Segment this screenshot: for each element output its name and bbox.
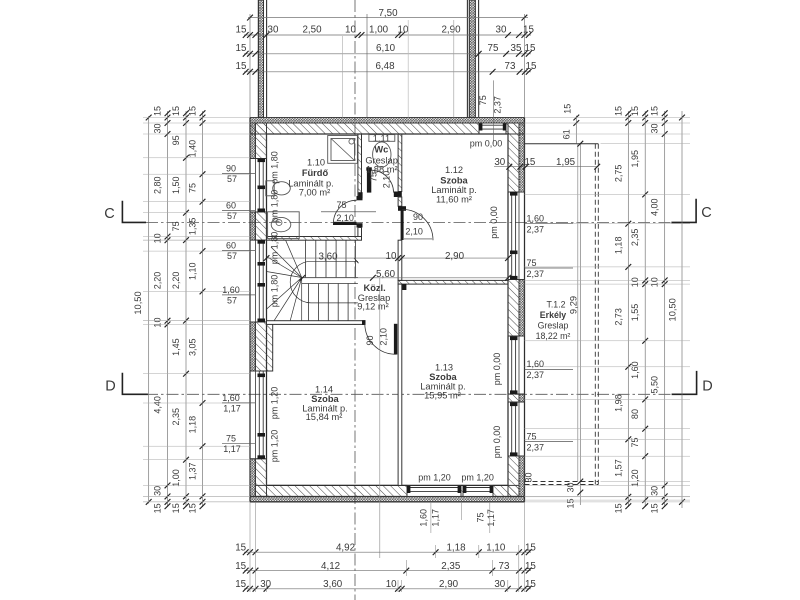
right wall inner face line: [507, 134, 509, 485]
svg-text:C: C: [701, 205, 711, 221]
svg-text:15: 15: [526, 61, 537, 72]
svg-text:90: 90: [365, 335, 375, 345]
svg-text:Szoba: Szoba: [440, 175, 468, 185]
svg-text:10: 10: [153, 233, 163, 243]
dim 30-15-1,95 below top right corner: [494, 166, 598, 168]
top wall hatched right pier: [506, 123, 525, 134]
svg-text:pm 1,80: pm 1,80: [270, 151, 280, 184]
left wall outer line: [249, 118, 251, 502]
bottom window leader lines: [430, 502, 432, 533]
svg-text:15: 15: [525, 579, 536, 590]
svg-text:9,12 m²: 9,12 m²: [357, 302, 389, 312]
left wall window caps: [258, 159, 266, 163]
svg-text:95: 95: [171, 135, 181, 145]
svg-text:75: 75: [630, 437, 640, 447]
top wall face lines: [267, 133, 509, 135]
right wall window labels: [525, 223, 574, 225]
misc vertical extension x493: [492, 80, 494, 143]
svg-text:7,50: 7,50: [378, 8, 398, 19]
svg-text:73: 73: [499, 561, 510, 572]
svg-text:pm 0,00: pm 0,00: [489, 206, 499, 239]
svg-text:3,60: 3,60: [323, 579, 343, 590]
svg-text:60: 60: [226, 241, 236, 251]
svg-text:15: 15: [236, 61, 247, 72]
svg-text:1,88 m²: 1,88 m²: [366, 165, 398, 175]
interior dim 3,60-10-2,90: [267, 257, 509, 259]
extension line left: [249, 14, 251, 118]
svg-text:10: 10: [398, 24, 409, 35]
svg-text:6,10: 6,10: [376, 43, 396, 54]
bottom window 1 frame: [407, 487, 461, 489]
svg-text:7,00 m²: 7,00 m²: [299, 187, 331, 197]
svg-text:pm 0,00: pm 0,00: [492, 426, 502, 459]
chimney pier by stair: [255, 322, 272, 371]
top insulation band: [250, 118, 525, 124]
svg-text:30: 30: [650, 486, 660, 496]
overall dim 7,50: [248, 17, 528, 19]
section marker D right: [672, 371, 697, 394]
door C threshold line: [404, 238, 432, 240]
svg-text:15: 15: [188, 106, 198, 116]
svg-text:10: 10: [386, 251, 397, 262]
svg-text:1,60: 1,60: [527, 214, 545, 224]
svg-text:1,18: 1,18: [613, 237, 623, 255]
svg-text:2,90: 2,90: [441, 24, 461, 35]
svg-text:Greslap: Greslap: [538, 320, 569, 330]
svg-text:15: 15: [563, 104, 573, 114]
bottom dimension chain y=570.6: [244, 570, 531, 572]
svg-text:D: D: [702, 379, 712, 395]
svg-text:Erkély: Erkély: [540, 310, 567, 320]
svg-text:1,17: 1,17: [486, 509, 496, 527]
balcony right edge dashed: [594, 144, 596, 485]
svg-text:15: 15: [525, 561, 536, 572]
wall W2 hall south: [267, 321, 366, 325]
left extension lines: [143, 117, 250, 119]
svg-text:15,95 m²: 15,95 m²: [424, 391, 461, 401]
section marker C right: [671, 199, 696, 223]
svg-text:15: 15: [171, 106, 181, 116]
svg-text:4,40: 4,40: [153, 396, 163, 414]
svg-text:90: 90: [413, 212, 423, 222]
right wall pier hatch: [508, 456, 519, 496]
right dimension chain x=664.7: [664, 111, 666, 507]
svg-text:2,50: 2,50: [302, 24, 322, 35]
svg-text:4,00: 4,00: [650, 198, 660, 216]
stair upper flight treads: [305, 240, 307, 277]
right wall pier hatch: [508, 394, 519, 402]
svg-text:35: 35: [511, 43, 522, 54]
svg-text:15,84 m²: 15,84 m²: [306, 412, 343, 422]
balcony dim 9,29: [579, 144, 581, 505]
svg-text:61: 61: [562, 129, 572, 139]
svg-text:1,00: 1,00: [369, 24, 389, 35]
svg-text:15: 15: [153, 106, 163, 116]
svg-text:30: 30: [153, 123, 163, 133]
wall W4 hatched mid: [398, 197, 402, 206]
svg-text:10: 10: [650, 277, 660, 287]
toilet fürdő: [266, 181, 274, 196]
wall W6 rooms 1.14|1.13: [398, 284, 402, 485]
svg-text:57: 57: [227, 174, 237, 184]
svg-text:30: 30: [268, 24, 279, 35]
svg-text:1,57: 1,57: [613, 459, 623, 477]
svg-text:30: 30: [494, 157, 505, 168]
svg-text:1,40: 1,40: [188, 140, 198, 158]
top chain 15-6,10-75-35-15: [244, 53, 531, 55]
top wall hatched left part: [250, 123, 479, 134]
svg-text:75: 75: [476, 512, 486, 522]
svg-text:1.10: 1.10: [307, 158, 325, 168]
extension line right: [523, 14, 525, 118]
wall W5 rooms 1.12|1.13 hatched: [398, 280, 508, 284]
svg-text:15: 15: [650, 106, 660, 116]
top chain 15-6,48-73-15: [244, 71, 531, 73]
misc faint vertical x408: [407, 20, 409, 118]
svg-text:1,18: 1,18: [188, 416, 198, 434]
left wall pier hatch: [255, 123, 266, 159]
right overall dim 10,50: [681, 111, 683, 508]
svg-text:75: 75: [226, 433, 236, 443]
door D room 1.14 leaf: [394, 324, 397, 355]
svg-text:pm 1,20: pm 1,20: [418, 473, 451, 483]
wall W1 fürdő south hatched: [267, 237, 362, 241]
svg-text:30: 30: [494, 579, 505, 590]
svg-text:4,12: 4,12: [321, 561, 340, 572]
svg-text:3,60: 3,60: [318, 251, 338, 262]
svg-text:15: 15: [171, 503, 181, 513]
svg-text:15: 15: [650, 503, 660, 513]
interior dim 5,60: [303, 277, 509, 279]
svg-text:1,60: 1,60: [527, 359, 545, 369]
stair landing double line: [302, 277, 358, 279]
svg-text:1,95: 1,95: [556, 157, 576, 168]
left wall pier hatch: [255, 459, 266, 497]
svg-text:2,10: 2,10: [405, 227, 423, 237]
stair lower flight treads: [308, 284, 310, 321]
svg-text:6,48: 6,48: [375, 61, 395, 72]
svg-text:15: 15: [524, 157, 535, 168]
svg-text:pm 1,20: pm 1,20: [270, 387, 280, 420]
svg-text:15: 15: [235, 561, 246, 572]
svg-text:2,37: 2,37: [527, 442, 545, 452]
svg-text:15: 15: [613, 503, 623, 513]
bottom insulation band: [250, 496, 525, 502]
right wall insulation line: [518, 123, 520, 496]
left wall window A frame: [258, 159, 260, 213]
top chain 15-30-2,50-10-1,00-10-2,90-30-15: [244, 34, 531, 36]
svg-text:30: 30: [566, 482, 576, 492]
svg-text:10: 10: [345, 24, 356, 35]
svg-text:75: 75: [336, 200, 346, 210]
bottom wall hatched right pier: [493, 485, 519, 496]
svg-text:15: 15: [525, 542, 536, 553]
svg-text:1,10: 1,10: [486, 542, 506, 553]
svg-text:10: 10: [386, 579, 397, 590]
svg-text:15: 15: [630, 106, 640, 116]
svg-text:15: 15: [236, 24, 247, 35]
misc faint vertical x342: [341, 36, 343, 118]
svg-text:1.14: 1.14: [315, 385, 333, 395]
bottom wall hatched left part: [255, 485, 407, 496]
svg-text:1,45: 1,45: [171, 338, 181, 356]
svg-text:2,20: 2,20: [153, 272, 163, 290]
wall W3 lower jamb cap: [357, 223, 363, 227]
bottom wall face lines: [267, 484, 509, 486]
wall W4 wc east hatched upper: [398, 134, 402, 192]
door A dim line: [321, 211, 376, 213]
svg-text:pm 1,80: pm 1,80: [270, 232, 280, 265]
bottom dimension chain y=552.2: [244, 551, 531, 553]
svg-text:2,90: 2,90: [439, 579, 459, 590]
svg-text:15: 15: [525, 43, 536, 54]
svg-text:1,17: 1,17: [223, 404, 241, 414]
svg-text:2,37: 2,37: [527, 269, 545, 279]
washbasin fürdő: [268, 212, 300, 239]
right wall outer line: [524, 118, 526, 502]
svg-text:57: 57: [227, 251, 237, 261]
section marker D left: [122, 373, 147, 395]
svg-text:pm 0,00: pm 0,00: [492, 353, 502, 386]
svg-text:2,10: 2,10: [336, 213, 354, 223]
wall W3 door jamb cap: [357, 196, 363, 200]
svg-text:2,75: 2,75: [613, 165, 623, 183]
right wall window caps: [510, 192, 518, 196]
wall W4 below door C: [398, 240, 402, 280]
balcony railing line: [577, 144, 579, 482]
svg-text:pm 1,20: pm 1,20: [270, 430, 280, 463]
stair centre line down: [301, 278, 303, 321]
svg-text:73: 73: [505, 61, 516, 72]
section marker C left: [122, 201, 146, 223]
svg-text:15: 15: [188, 503, 198, 513]
svg-text:15: 15: [523, 24, 534, 35]
vertical centre axis line: [354, 0, 356, 600]
door C swing arc: [402, 209, 433, 240]
svg-text:1,17: 1,17: [431, 509, 441, 527]
svg-text:2,35: 2,35: [630, 229, 640, 247]
svg-text:57: 57: [227, 211, 237, 221]
svg-text:1,35: 1,35: [188, 218, 198, 236]
upper-left wall stub: [258, 0, 263, 118]
svg-text:5,50: 5,50: [650, 376, 660, 394]
svg-text:30: 30: [496, 24, 507, 35]
svg-text:1,00: 1,00: [171, 469, 181, 487]
svg-text:Közl.: Közl.: [363, 283, 385, 293]
left wall window labels: [222, 172, 255, 174]
svg-text:D: D: [105, 379, 115, 395]
dim 15/61 at balcony top: [575, 116, 577, 144]
toilet wc: [369, 135, 395, 142]
door B swing arc: [371, 170, 393, 192]
left wall insulation line: [254, 123, 256, 496]
balcony top edge: [525, 143, 599, 145]
svg-text:1,37: 1,37: [188, 462, 198, 480]
door D swing arc: [365, 324, 396, 355]
svg-text:15: 15: [236, 43, 247, 54]
svg-text:1,17: 1,17: [223, 444, 241, 454]
svg-text:15: 15: [235, 542, 246, 553]
svg-text:2,73: 2,73: [613, 308, 623, 326]
svg-text:Fürdő: Fürdő: [302, 168, 329, 178]
left overall dim 10,50: [148, 116, 150, 504]
svg-text:C: C: [104, 206, 114, 222]
long extension x380: [379, 278, 381, 558]
svg-text:2,35: 2,35: [171, 408, 181, 426]
left dimension chain x=167.5: [167, 111, 169, 507]
bottom extension lines: [249, 502, 251, 592]
right dimension chain x=645.2: [644, 111, 646, 507]
svg-text:pm 1,20: pm 1,20: [461, 473, 494, 483]
balcony bottom edge dashed: [525, 481, 599, 483]
svg-text:2,37: 2,37: [527, 370, 545, 380]
svg-text:1,60: 1,60: [222, 285, 240, 295]
svg-text:75: 75: [478, 95, 488, 105]
svg-text:pm 1,80: pm 1,80: [270, 275, 280, 308]
right wall pier hatch: [508, 280, 519, 337]
svg-text:80: 80: [630, 409, 640, 419]
stair winder fan lines: [286, 240, 302, 277]
section line D-D: [146, 393, 696, 395]
svg-text:11,60 m²: 11,60 m²: [436, 195, 472, 205]
left dimension chain x=202.5: [202, 111, 204, 507]
wall W3 wc west hatched: [358, 134, 362, 196]
svg-text:1.12: 1.12: [445, 165, 463, 175]
svg-text:75: 75: [171, 221, 181, 231]
svg-text:2,90: 2,90: [445, 251, 465, 262]
left wall inner face line: [266, 134, 268, 485]
svg-text:1,95: 1,95: [630, 150, 640, 168]
svg-text:90: 90: [226, 163, 236, 173]
svg-text:75: 75: [527, 258, 537, 268]
svg-text:1.13: 1.13: [435, 363, 453, 373]
svg-text:Laminált p.: Laminált p.: [431, 185, 476, 195]
svg-text:10: 10: [630, 277, 640, 287]
top window 73 frame: [479, 124, 506, 126]
svg-text:pm 0,00: pm 0,00: [470, 138, 503, 148]
bottom wall mullion pier: [461, 485, 463, 496]
svg-text:1,18: 1,18: [446, 542, 466, 553]
bottom dimension chain y=588.8: [244, 588, 531, 590]
door B jamb cap: [358, 192, 362, 198]
svg-text:57: 57: [227, 296, 237, 306]
svg-text:1,20: 1,20: [630, 469, 640, 487]
svg-text:30: 30: [153, 486, 163, 496]
svg-text:5,60: 5,60: [376, 269, 396, 280]
svg-text:1.11: 1.11: [373, 133, 390, 143]
svg-text:1,50: 1,50: [171, 176, 181, 194]
door A swing arc: [333, 200, 356, 223]
wall W5 end cap: [399, 284, 407, 290]
svg-text:3,05: 3,05: [188, 338, 198, 356]
left wall pier hatch: [255, 212, 266, 240]
upper-right wall stub: [469, 0, 475, 118]
svg-text:T.1.2: T.1.2: [546, 300, 565, 310]
svg-text:30: 30: [260, 579, 271, 590]
svg-text:60: 60: [226, 201, 236, 211]
misc thin vertical x367: [366, 14, 368, 118]
wall W4 jamb cap: [394, 192, 402, 198]
svg-text:15: 15: [153, 503, 163, 513]
right wall window frames: [511, 192, 513, 280]
right dimension chain x=628.3: [627, 111, 629, 507]
bottom window 2 frame: [463, 487, 493, 489]
svg-text:pm 1,80: pm 1,80: [270, 190, 280, 223]
svg-text:1,60: 1,60: [630, 361, 640, 379]
svg-text:15: 15: [613, 106, 623, 116]
svg-text:75: 75: [488, 43, 499, 54]
door B wc leaf: [367, 169, 371, 193]
wall W4 door C jamb cap: [398, 206, 406, 211]
svg-text:2,20: 2,20: [171, 272, 181, 290]
svg-text:1,98: 1,98: [613, 394, 623, 412]
svg-text:1,10: 1,10: [188, 262, 198, 280]
right wall pier hatch: [508, 123, 519, 192]
svg-text:9,29: 9,29: [569, 296, 579, 314]
svg-text:4,92: 4,92: [336, 542, 355, 553]
left dimension chain x=186: [185, 111, 187, 507]
svg-text:2,35: 2,35: [441, 561, 461, 572]
svg-text:10: 10: [153, 318, 163, 328]
svg-text:1,60: 1,60: [222, 393, 240, 403]
svg-text:10,50: 10,50: [133, 291, 143, 314]
svg-text:1,60: 1,60: [419, 509, 429, 527]
door C room 1.12 leaf: [401, 209, 404, 240]
section line C-C: [146, 221, 696, 223]
svg-text:2,37: 2,37: [527, 225, 545, 235]
svg-text:2,37: 2,37: [493, 96, 503, 114]
svg-text:75: 75: [188, 183, 198, 193]
svg-text:30: 30: [650, 123, 660, 133]
svg-text:2,80: 2,80: [153, 176, 163, 194]
misc faint vertical x453: [453, 20, 455, 118]
svg-text:15: 15: [235, 579, 246, 590]
wall W3 stub to W1: [358, 228, 362, 237]
right extension lines: [525, 117, 691, 119]
svg-text:Wc: Wc: [374, 145, 388, 155]
svg-text:75: 75: [527, 431, 537, 441]
svg-text:10,50: 10,50: [667, 298, 677, 321]
misc vertical extension x478: [478, 72, 480, 117]
door A fürdő leaf: [333, 222, 357, 225]
svg-text:1,55: 1,55: [630, 304, 640, 322]
shower tray: [328, 136, 358, 164]
svg-text:18,22 m²: 18,22 m²: [536, 331, 571, 341]
stair walking line: [290, 261, 358, 303]
svg-text:30: 30: [524, 472, 534, 482]
